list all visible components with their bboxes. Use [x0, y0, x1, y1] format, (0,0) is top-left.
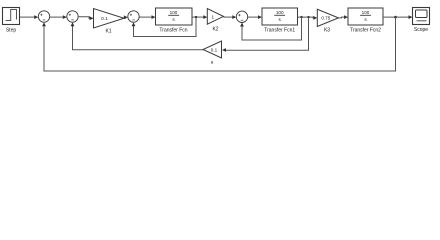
- wire Step to Sum1: [20, 15, 38, 19]
- wire Sum1 to Sum2: [50, 15, 67, 19]
- wire Transfer Fcn to gain K2 with branch junction: [192, 15, 207, 19]
- feedback wire branch to Sum4 (inner loop 2): [240, 17, 301, 40]
- sum junction Sum3: [128, 11, 139, 22]
- svg-text:K1: K1: [105, 29, 111, 35]
- wire Sum2 to gain K1: [78, 16, 93, 20]
- feedback wire branch to gain a input: [222, 17, 309, 52]
- wire Transfer Fcn2 to Scope with branch junction: [383, 15, 413, 19]
- gain K3 value 0.75: [317, 9, 338, 33]
- svg-text:100: 100: [170, 10, 178, 15]
- wire gain a output to Sum2: [71, 22, 203, 50]
- svg-text:Transfer Fcn2: Transfer Fcn2: [350, 27, 381, 33]
- sum junction Sum1: [38, 11, 49, 22]
- svg-text:Step: Step: [6, 27, 17, 33]
- svg-text:100: 100: [362, 10, 370, 15]
- wire Transfer Fcn1 to gain K3 with two branch junctions: [298, 16, 318, 20]
- svg-text:0.1: 0.1: [101, 16, 108, 22]
- svg-text:Transfer Fcn: Transfer Fcn: [159, 27, 187, 33]
- gain K2 value 1: [207, 9, 223, 33]
- svg-text:100: 100: [276, 10, 284, 15]
- svg-text:0.75: 0.75: [321, 16, 330, 21]
- feedback gain a value 0.1 (left pointing): [203, 41, 222, 65]
- step source block Step: [3, 8, 20, 34]
- scope block Scope: [413, 8, 430, 33]
- wire Sum3 to Transfer Fcn: [139, 15, 155, 19]
- sum junction Sum4: [236, 11, 247, 22]
- wire Sum4 to Transfer Fcn1: [248, 15, 262, 19]
- outer feedback wire from Scope branch to Sum1: [42, 17, 395, 71]
- svg-text:K2: K2: [212, 27, 218, 33]
- transfer function block Transfer Fcn1 100/s: [262, 8, 298, 33]
- wire K1 to Sum3: [124, 15, 128, 19]
- transfer function block Transfer Fcn2 100/s: [348, 8, 383, 33]
- feedback wire branch to Sum3 (inner loop 1): [132, 17, 196, 36]
- svg-text:K3: K3: [324, 28, 330, 34]
- svg-text:0.1: 0.1: [211, 47, 218, 52]
- svg-text:Transfer Fcn1: Transfer Fcn1: [264, 27, 295, 33]
- transfer function block Transfer Fcn 100/s: [156, 8, 193, 33]
- wire K3 to Transfer Fcn2: [339, 15, 349, 19]
- wire K2 to Sum4: [224, 15, 237, 19]
- svg-text:Scope: Scope: [414, 27, 428, 33]
- gain K1 value 0.1: [94, 9, 125, 35]
- svg-text:1: 1: [212, 14, 215, 19]
- sum junction Sum2: [67, 11, 78, 22]
